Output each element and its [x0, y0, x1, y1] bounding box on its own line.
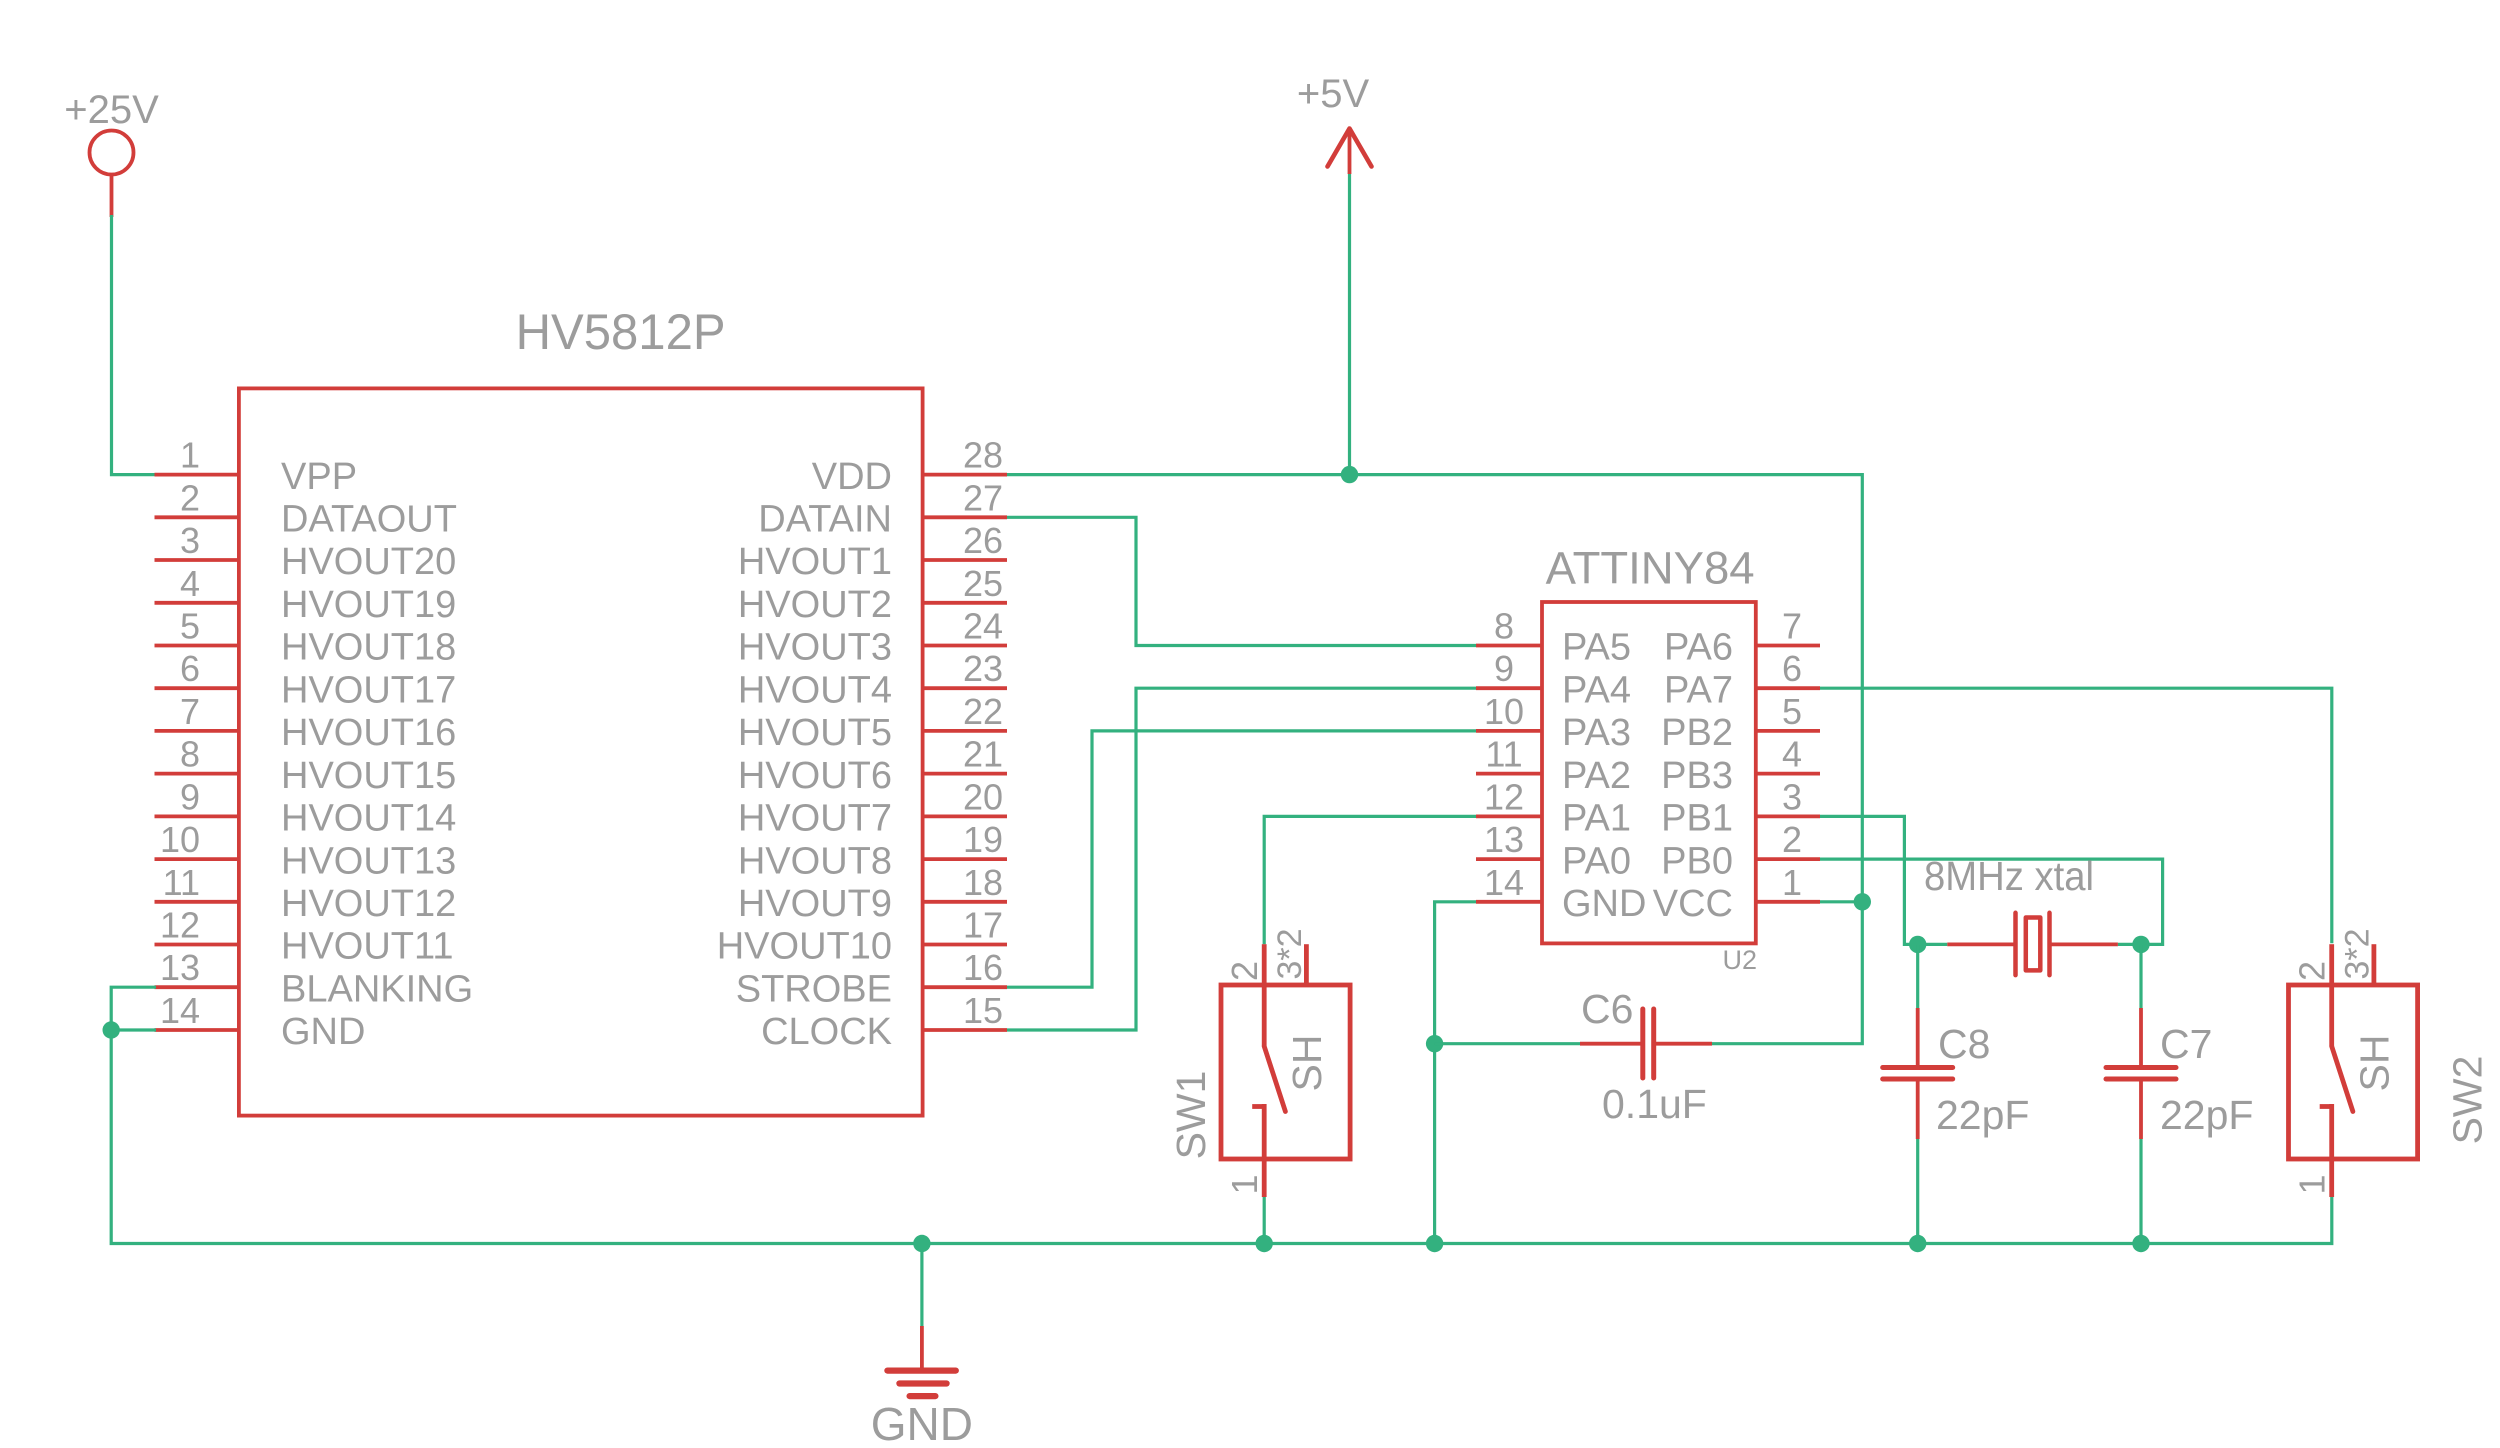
net +5V / VDD wire [1007, 475, 1862, 1044]
svg-text:1: 1 [2292, 1174, 2333, 1194]
capacitor C7 22pF [2106, 1008, 2253, 1139]
U1 pin 14 GND [155, 990, 366, 1053]
svg-text:GND: GND [1562, 883, 1646, 925]
U1 pin 7 HVOUT16 [155, 691, 457, 754]
svg-text:19: 19 [963, 819, 1003, 860]
svg-text:+5V: +5V [1297, 72, 1370, 116]
svg-text:25: 25 [963, 563, 1003, 604]
svg-text:21: 21 [963, 734, 1003, 775]
svg-text:11: 11 [163, 862, 200, 903]
junction VCC [1854, 893, 1871, 910]
U1 pin 2 DATAOUT [155, 477, 457, 540]
svg-text:10: 10 [1484, 691, 1524, 732]
net PB0 to crystal right [1820, 859, 2163, 944]
svg-text:5: 5 [1782, 691, 1802, 732]
wire U1 GND stub [111, 1028, 156, 1031]
svg-text:0.1uF: 0.1uF [1602, 1081, 1707, 1127]
crystal 8MHz xtal [1924, 853, 2118, 975]
svg-text:27: 27 [963, 477, 1003, 518]
svg-text:VDD: VDD [812, 456, 892, 498]
svg-text:HVOUT5: HVOUT5 [738, 712, 892, 754]
U2 pin 1 VCC [1653, 862, 1820, 925]
svg-text:PA4: PA4 [1562, 669, 1631, 711]
svg-text:HVOUT17: HVOUT17 [281, 669, 456, 711]
svg-text:C6: C6 [1581, 986, 1633, 1032]
svg-text:HVOUT11: HVOUT11 [281, 926, 453, 968]
svg-text:STROBE: STROBE [736, 968, 892, 1010]
svg-text:13: 13 [1484, 819, 1524, 860]
U1 pin 18 HVOUT9 [738, 862, 1007, 925]
svg-text:4: 4 [1782, 734, 1802, 775]
supply port +25V [64, 88, 159, 217]
wire C8 top [1916, 944, 1919, 1008]
svg-text:13: 13 [160, 947, 200, 988]
svg-text:HVOUT15: HVOUT15 [281, 755, 456, 797]
U2 pin 9 PA4 [1476, 648, 1631, 711]
U1 pin 16 STROBE [736, 947, 1007, 1010]
U2 pin 2 PB0 [1661, 819, 1820, 882]
svg-text:HVOUT4: HVOUT4 [738, 669, 892, 711]
svg-text:20: 20 [963, 776, 1003, 817]
svg-text:8: 8 [1494, 606, 1514, 647]
wire C6 left lead [1435, 1042, 1580, 1045]
svg-text:HVOUT2: HVOUT2 [738, 584, 892, 626]
wire +25V to U1 VPP [112, 215, 157, 475]
U1 pin 3 HVOUT20 [155, 520, 457, 583]
svg-text:14: 14 [160, 990, 200, 1031]
U2 pin 13 PA0 [1476, 819, 1631, 882]
svg-text:HVOUT9: HVOUT9 [738, 883, 892, 925]
wire C7 top [2139, 944, 2142, 1008]
svg-text:DATAOUT: DATAOUT [281, 499, 457, 541]
switch SW2 [2289, 928, 2491, 1197]
svg-text:14: 14 [1484, 862, 1524, 903]
svg-text:18: 18 [963, 862, 1003, 903]
U1 pin 21 HVOUT6 [738, 734, 1007, 797]
U1 pin 12 HVOUT11 [155, 905, 454, 968]
wire SW1 pin1 to rail [1263, 1197, 1266, 1244]
svg-text:HVOUT20: HVOUT20 [281, 541, 456, 583]
svg-text:SH: SH [2352, 1035, 2398, 1092]
svg-text:2: 2 [180, 477, 200, 518]
junction C8 rail [1909, 1235, 1926, 1252]
svg-text:16: 16 [963, 947, 1003, 988]
U1 pin 13 BLANKING [155, 947, 474, 1010]
svg-text:8: 8 [180, 734, 200, 775]
svg-text:15: 15 [963, 990, 1003, 1031]
svg-text:7: 7 [1782, 606, 1802, 647]
svg-text:11: 11 [1485, 734, 1522, 775]
svg-text:22: 22 [963, 691, 1003, 732]
U2 pin 11 PA2 [1476, 734, 1631, 797]
U2 pin 12 PA1 [1476, 776, 1631, 839]
U2 pin 5 PB2 [1661, 691, 1820, 754]
svg-text:12: 12 [160, 905, 200, 946]
svg-text:PB2: PB2 [1661, 712, 1733, 754]
U1 pin 10 HVOUT13 [155, 819, 457, 882]
net STROBE to PA3 [1007, 731, 1476, 987]
svg-text:PA7: PA7 [1664, 669, 1733, 711]
capacitor C6 0.1uF [1580, 986, 1712, 1127]
svg-text:17: 17 [963, 905, 1003, 946]
svg-text:PA2: PA2 [1562, 755, 1631, 797]
junction crystal left / C8 [1909, 936, 1926, 953]
junction U2 GND rail [1426, 1235, 1443, 1252]
svg-text:BLANKING: BLANKING [281, 968, 473, 1010]
svg-text:12: 12 [1484, 776, 1524, 817]
svg-text:1: 1 [1782, 862, 1802, 903]
svg-text:ATTINY84: ATTINY84 [1546, 543, 1755, 594]
svg-text:GND: GND [281, 1011, 365, 1053]
svg-text:HVOUT16: HVOUT16 [281, 712, 456, 754]
svg-text:HVOUT8: HVOUT8 [738, 840, 892, 882]
svg-text:HVOUT1: HVOUT1 [738, 541, 892, 583]
U1 pin 6 HVOUT17 [155, 648, 457, 711]
wire +5V stem [1348, 174, 1351, 475]
U2 pin 10 PA3 [1476, 691, 1631, 754]
svg-text:2: 2 [1782, 819, 1802, 860]
U1 pin 28 VDD [812, 435, 1007, 498]
svg-text:PA6: PA6 [1664, 627, 1733, 669]
svg-text:HVOUT14: HVOUT14 [281, 798, 456, 840]
junction C7 rail [2132, 1235, 2149, 1252]
svg-text:10: 10 [160, 819, 200, 860]
U1 pin 27 DATAIN [758, 477, 1007, 540]
svg-text:PB0: PB0 [1661, 840, 1733, 882]
svg-text:3: 3 [1782, 776, 1802, 817]
wire C8 bottom to rail [1916, 1139, 1919, 1244]
junction SW1 rail [1256, 1235, 1273, 1252]
svg-text:5: 5 [180, 606, 200, 647]
svg-text:SH: SH [1284, 1035, 1330, 1092]
svg-text:1: 1 [1224, 1174, 1265, 1194]
svg-text:6: 6 [1782, 648, 1802, 689]
svg-text:1: 1 [180, 435, 200, 476]
U2 pin 14 GND [1476, 862, 1646, 925]
U1 pin 15 CLOCK [761, 990, 1007, 1053]
U1 pin 24 HVOUT3 [738, 606, 1007, 669]
svg-text:PB1: PB1 [1661, 798, 1733, 840]
U1 pin 8 HVOUT15 [155, 734, 457, 797]
capacitor C8 22pF [1883, 1008, 2030, 1139]
svg-text:HVOUT13: HVOUT13 [281, 840, 456, 882]
svg-text:PA1: PA1 [1562, 798, 1631, 840]
svg-text:HV5812P: HV5812P [516, 304, 726, 360]
svg-text:8MHz xtal: 8MHz xtal [1924, 853, 2094, 899]
svg-text:HVOUT19: HVOUT19 [281, 584, 456, 626]
U1 pin 22 HVOUT5 [738, 691, 1007, 754]
U1 pin 1 VPP [155, 435, 358, 498]
U1 pin 11 HVOUT12 [155, 862, 457, 925]
net PB1 to crystal left [1820, 816, 1947, 944]
U1 pin 5 HVOUT18 [155, 606, 457, 669]
svg-text:22pF: 22pF [1936, 1092, 2029, 1138]
svg-text:3*2: 3*2 [1271, 928, 1309, 979]
svg-text:7: 7 [180, 691, 200, 732]
net U2 GND riser [1435, 902, 1476, 1244]
svg-text:HVOUT6: HVOUT6 [738, 755, 892, 797]
svg-text:4: 4 [180, 563, 200, 604]
svg-text:C8: C8 [1938, 1021, 1990, 1067]
U2 pin 7 PA6 [1664, 606, 1820, 669]
svg-text:C7: C7 [2160, 1021, 2212, 1067]
U1 pin 4 HVOUT19 [155, 563, 457, 626]
svg-text:3*2: 3*2 [2338, 928, 2376, 979]
svg-text:26: 26 [963, 520, 1003, 561]
net CLOCK to PA4 [1007, 688, 1476, 1030]
svg-text:23: 23 [963, 648, 1003, 689]
ground symbol GND [871, 1326, 973, 1448]
wire C7 bottom to rail [2139, 1139, 2142, 1244]
net PA7 to SW2 [1820, 688, 2332, 943]
U2 pin 3 PB1 [1661, 776, 1820, 839]
svg-text:SW1: SW1 [1168, 1071, 1214, 1160]
svg-text:PB3: PB3 [1661, 755, 1733, 797]
svg-text:HVOUT7: HVOUT7 [738, 798, 892, 840]
U1 pin 9 HVOUT14 [155, 776, 457, 839]
svg-text:PA0: PA0 [1562, 840, 1631, 882]
junction C6 left [1426, 1035, 1443, 1052]
U1 pin 23 HVOUT4 [738, 648, 1007, 711]
U2 pin 4 PB3 [1661, 734, 1820, 797]
U1 pin 19 HVOUT8 [738, 819, 1007, 882]
svg-text:DATAIN: DATAIN [758, 499, 892, 541]
svg-text:PA5: PA5 [1562, 627, 1631, 669]
svg-text:+25V: +25V [64, 88, 159, 132]
svg-text:SW2: SW2 [2445, 1056, 2491, 1145]
svg-text:2: 2 [2292, 961, 2333, 981]
svg-text:6: 6 [180, 648, 200, 689]
svg-text:VPP: VPP [281, 456, 357, 498]
svg-text:HVOUT12: HVOUT12 [281, 883, 456, 925]
svg-text:U2: U2 [1722, 945, 1757, 975]
svg-text:2: 2 [1224, 961, 1265, 981]
U2 pin 6 PA7 [1664, 648, 1820, 711]
net GND left riser + bottom rail [111, 987, 2332, 1243]
svg-text:CLOCK: CLOCK [761, 1011, 892, 1053]
IC U2 ATTINY84 body [1542, 543, 1757, 975]
svg-text:PA3: PA3 [1562, 712, 1631, 754]
U1 pin 26 HVOUT1 [738, 520, 1007, 583]
IC U1 HV5812P body [239, 304, 923, 1116]
junction crystal right / C7 [2132, 936, 2149, 953]
svg-text:28: 28 [963, 435, 1003, 476]
svg-text:24: 24 [963, 606, 1003, 647]
svg-text:VCC: VCC [1653, 883, 1733, 925]
svg-text:9: 9 [1494, 648, 1514, 689]
svg-text:9: 9 [180, 776, 200, 817]
wire GND symbol drop [920, 1244, 923, 1329]
junction +5V at VDD wire [1341, 466, 1358, 483]
svg-text:3: 3 [180, 520, 200, 561]
U1 pin 17 HVOUT10 [717, 905, 1007, 968]
supply symbol +5V [1297, 72, 1372, 174]
svg-text:HVOUT3: HVOUT3 [738, 627, 892, 669]
net DATAIN to PA5 [1007, 517, 1476, 645]
svg-text:GND: GND [871, 1398, 973, 1448]
junction U1 GND [103, 1021, 120, 1038]
junction GND symbol [913, 1235, 930, 1252]
U2 pin 8 PA5 [1476, 606, 1631, 669]
switch SW1 [1168, 928, 1350, 1197]
svg-text:22pF: 22pF [2160, 1092, 2253, 1138]
net PA1 to SW1 [1264, 816, 1476, 944]
svg-text:HVOUT18: HVOUT18 [281, 627, 456, 669]
svg-text:HVOUT10: HVOUT10 [717, 926, 892, 968]
U1 pin 20 HVOUT7 [738, 776, 1007, 839]
wire U2 VCC stub [1820, 900, 1862, 903]
U1 pin 25 HVOUT2 [738, 563, 1007, 626]
